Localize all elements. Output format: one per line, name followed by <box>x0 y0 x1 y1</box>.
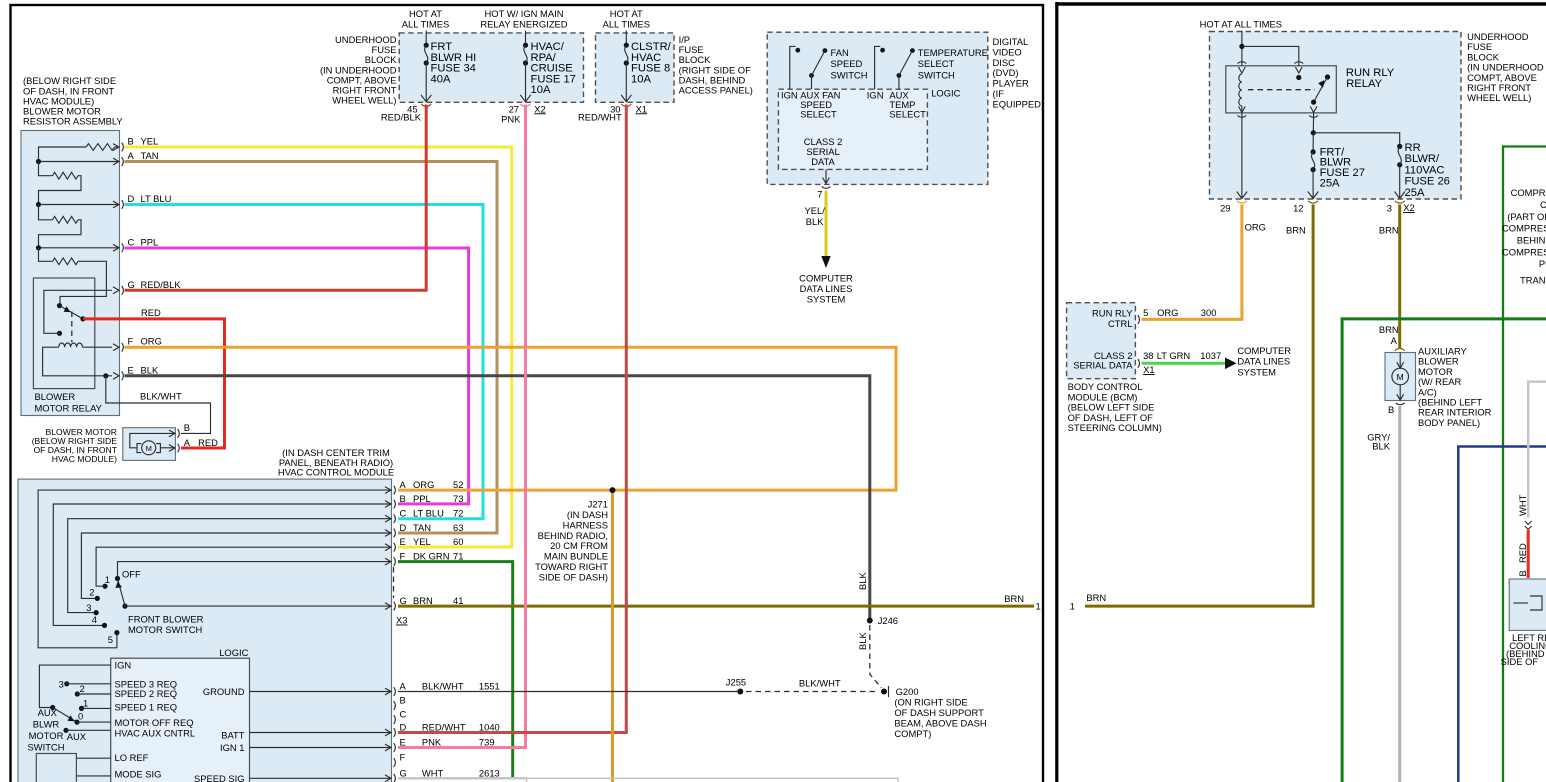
svg-text:A: A <box>128 150 135 161</box>
svg-text:HOT AT: HOT AT <box>610 8 643 19</box>
svg-text:AUX: AUX <box>67 731 87 742</box>
svg-text:A: A <box>400 681 407 692</box>
svg-text:A: A <box>184 437 191 448</box>
svg-text:(IF: (IF <box>993 88 1005 99</box>
svg-text:BATT: BATT <box>221 730 245 741</box>
svg-text:SELECT: SELECT <box>918 58 955 69</box>
svg-text:MOTOR OFF REQ: MOTOR OFF REQ <box>115 717 194 728</box>
svg-text:BLWR: BLWR <box>33 719 60 730</box>
dashed BLK below J246 <box>870 625 882 688</box>
svg-text:BLK: BLK <box>141 364 159 375</box>
svg-text:SWITCH: SWITCH <box>918 69 955 80</box>
underhood fuse block (left panel) <box>399 33 583 102</box>
svg-text:X1: X1 <box>636 103 647 114</box>
svg-text:B: B <box>1517 570 1528 576</box>
svg-text:38: 38 <box>1143 350 1153 361</box>
svg-text:LOGIC: LOGIC <box>931 88 960 99</box>
svg-text:1: 1 <box>83 698 88 709</box>
wire RED (relay to blower motor A) <box>83 319 225 448</box>
svg-text:1: 1 <box>105 574 110 585</box>
svg-text:E: E <box>128 364 134 375</box>
svg-text:G200: G200 <box>896 686 919 697</box>
svg-text:3: 3 <box>59 679 64 690</box>
svg-text:RED/BLK: RED/BLK <box>381 112 422 123</box>
wire LT GRN <box>1142 362 1227 365</box>
front blower motor switch <box>115 576 120 581</box>
relay coil <box>59 343 83 347</box>
svg-text:FRONT BLOWER: FRONT BLOWER <box>128 614 204 625</box>
svg-text:B: B <box>400 493 406 504</box>
svg-text:SPEED: SPEED <box>831 58 863 69</box>
svg-text:ALL TIMES: ALL TIMES <box>603 18 650 29</box>
svg-text:BLWR/: BLWR/ <box>1405 153 1440 165</box>
blower motor relay inner box <box>33 278 94 389</box>
svg-text:110VAC: 110VAC <box>1405 164 1445 176</box>
svg-text:SELECT: SELECT <box>889 109 926 120</box>
fan speed switch <box>790 46 796 89</box>
svg-text:SIDE OF DASH): SIDE OF DASH) <box>539 571 608 582</box>
wire C PPL <box>125 248 469 504</box>
svg-text:BRN: BRN <box>1286 225 1306 236</box>
svg-text:BLK: BLK <box>806 216 824 227</box>
svg-text:BLK: BLK <box>857 632 868 650</box>
svg-text:1037: 1037 <box>1200 350 1221 361</box>
svg-text:2: 2 <box>89 587 94 598</box>
svg-text:M: M <box>146 444 152 453</box>
svg-text:COMPRESSOR: COMPRESSOR <box>1502 246 1546 257</box>
svg-text:SIDE OF: SIDE OF <box>1501 656 1539 667</box>
svg-text:20 CM FROM: 20 CM FROM <box>550 540 608 551</box>
wire B YEL <box>125 147 512 547</box>
svg-text:25A: 25A <box>1320 178 1340 190</box>
module pin connectors + labels (upper group) <box>385 487 391 494</box>
navy box <box>1458 447 1546 782</box>
svg-text:LT BLU: LT BLU <box>141 193 172 204</box>
relay dashed link <box>71 312 73 343</box>
fuse F34 FRT BLWR HI <box>424 43 429 48</box>
fuse 27 <box>1311 149 1316 154</box>
svg-text:PULLEY): PULLEY) <box>1539 258 1546 269</box>
svg-text:IGN: IGN <box>115 660 132 671</box>
relay feeds <box>1241 31 1243 66</box>
svg-text:BODY PANEL): BODY PANEL) <box>1418 417 1480 428</box>
svg-text:TAN: TAN <box>413 522 431 533</box>
svg-text:(PART OF: (PART OF <box>1507 211 1546 222</box>
svg-text:(ON RIGHT SIDE: (ON RIGHT SIDE <box>894 696 967 707</box>
svg-text:FUSE 26: FUSE 26 <box>1405 176 1450 188</box>
svg-text:4: 4 <box>92 614 97 625</box>
svg-text:TOWARD RIGHT: TOWARD RIGHT <box>535 561 608 572</box>
bottom-left small box <box>36 754 76 782</box>
svg-text:5: 5 <box>1143 307 1148 318</box>
svg-text:41: 41 <box>453 595 463 606</box>
svg-text:SWITCH: SWITCH <box>831 69 868 80</box>
svg-text:J246: J246 <box>878 615 898 626</box>
svg-text:LOGIC: LOGIC <box>219 647 248 658</box>
svg-text:B: B <box>128 136 134 147</box>
svg-text:COMPUTER: COMPUTER <box>799 273 853 284</box>
svg-text:ORG: ORG <box>141 336 162 347</box>
blower motor resistor assembly box <box>21 131 120 416</box>
svg-text:BRN: BRN <box>1004 593 1024 604</box>
svg-text:G: G <box>128 279 135 290</box>
splice J255 <box>737 689 743 695</box>
svg-text:LT BLU: LT BLU <box>413 508 444 519</box>
svg-text:SPEED 2 REQ: SPEED 2 REQ <box>115 688 178 699</box>
left rear cooling box <box>1509 579 1546 630</box>
svg-text:BLK/WHT: BLK/WHT <box>799 678 841 689</box>
underhood fuse block (right) <box>1210 32 1462 200</box>
svg-text:PPL: PPL <box>413 493 431 504</box>
svg-text:PLAYER: PLAYER <box>993 78 1030 89</box>
svg-text:739: 739 <box>479 737 495 748</box>
svg-text:SYSTEM: SYSTEM <box>1237 366 1276 377</box>
wire ORG (29 to BCM) <box>1142 205 1242 320</box>
svg-text:COMPT): COMPT) <box>894 728 931 739</box>
svg-text:ACCESS PANEL): ACCESS PANEL) <box>679 85 753 96</box>
svg-text:SELECT: SELECT <box>800 109 837 120</box>
svg-text:J255: J255 <box>726 677 746 688</box>
svg-text:PPL: PPL <box>141 236 159 247</box>
svg-text:71: 71 <box>453 551 463 562</box>
svg-text:ALL TIMES: ALL TIMES <box>402 18 449 29</box>
relay upper contact <box>57 303 62 308</box>
svg-text:DISC: DISC <box>993 57 1016 68</box>
svg-text:X3: X3 <box>396 615 407 626</box>
svg-text:RED/WHT: RED/WHT <box>578 112 622 123</box>
svg-text:B: B <box>400 695 406 706</box>
node: A tap <box>36 159 41 164</box>
svg-text:RED/BLK: RED/BLK <box>141 279 182 290</box>
svg-text:HOT W/ IGN MAIN: HOT W/ IGN MAIN <box>485 8 564 19</box>
wire G RED/BLK (to fuse 34 pin 45) <box>125 105 427 291</box>
fuse F8 CLSTR/HVAC <box>624 43 629 48</box>
svg-text:MOTOR: MOTOR <box>29 730 64 741</box>
svg-text:F: F <box>128 336 134 347</box>
svg-text:2: 2 <box>80 683 85 694</box>
svg-text:0: 0 <box>78 711 83 722</box>
svg-text:RELAY: RELAY <box>1346 78 1382 90</box>
svg-text:STEERING COLUMN): STEERING COLUMN) <box>1068 422 1162 433</box>
svg-text:A: A <box>1391 335 1398 346</box>
resistor box pin connectors <box>113 144 119 151</box>
svg-text:COMPUTER: COMPUTER <box>1237 345 1291 356</box>
svg-text:40A: 40A <box>431 73 451 85</box>
wire A TAN <box>125 162 498 534</box>
relay common + blade <box>60 306 84 319</box>
svg-text:AUX: AUX <box>38 707 58 718</box>
svg-text:C: C <box>400 709 407 720</box>
svg-text:63: 63 <box>453 522 463 533</box>
svg-text:D: D <box>128 193 135 204</box>
svg-text:SERIAL DATA: SERIAL DATA <box>1073 360 1133 371</box>
auxiliary blower motor <box>1395 355 1404 362</box>
svg-text:(DVD): (DVD) <box>993 67 1019 78</box>
svg-text:DK GRN: DK GRN <box>413 551 449 562</box>
relay lower contact + G feed <box>57 331 62 336</box>
node: E junction <box>103 373 108 378</box>
svg-text:1: 1 <box>1036 601 1041 612</box>
svg-text:OF DASH SUPPORT: OF DASH SUPPORT <box>894 707 984 718</box>
svg-text:12: 12 <box>1293 203 1303 214</box>
svg-text:X1: X1 <box>1143 364 1154 375</box>
svg-text:YEL: YEL <box>413 536 431 547</box>
svg-text:ORG: ORG <box>413 479 434 490</box>
aux blower motor switch <box>39 665 110 707</box>
ground G200 <box>881 689 887 695</box>
svg-text:LT GRN: LT GRN <box>1157 350 1191 361</box>
svg-text:VIDEO: VIDEO <box>993 46 1022 57</box>
svg-text:PNK: PNK <box>501 114 521 125</box>
wire A BLK/WHT to J255 <box>398 691 740 693</box>
svg-text:25A: 25A <box>1405 187 1425 199</box>
left panel frame <box>11 5 1044 782</box>
wire RED/WHT from fuse 8 <box>398 105 626 733</box>
svg-text:MOTOR SWITCH: MOTOR SWITCH <box>128 624 202 635</box>
BCM box <box>1067 303 1136 379</box>
svg-text:IGN: IGN <box>867 90 884 101</box>
svg-text:COMPRESSOR,: COMPRESSOR, <box>1502 223 1546 234</box>
fuse block bottom pins <box>1237 192 1247 199</box>
svg-text:ORG: ORG <box>1157 307 1178 318</box>
svg-text:G: G <box>400 595 407 606</box>
DVD player outer box <box>767 32 988 184</box>
svg-text:BLK: BLK <box>857 572 868 590</box>
svg-text:YEL: YEL <box>141 136 159 147</box>
svg-text:RED: RED <box>198 437 218 448</box>
svg-text:29: 29 <box>1220 203 1230 214</box>
wire GRY/BLK <box>1398 406 1401 782</box>
svg-text:BEHIND: BEHIND <box>1517 235 1546 246</box>
right panel frame <box>1055 2 1058 782</box>
node: C tap <box>36 245 41 250</box>
svg-text:D: D <box>400 522 407 533</box>
wire BRN (12 to left exit) <box>1085 205 1313 607</box>
resistor serpentine chain <box>115 146 120 148</box>
wire E BLK <box>125 376 870 618</box>
svg-text:J271: J271 <box>588 499 608 510</box>
svg-text:RED/WHT: RED/WHT <box>422 722 466 733</box>
wire ORG J271 branch down <box>611 490 614 782</box>
svg-text:SWITCH: SWITCH <box>28 742 65 753</box>
wire G BRN <box>398 605 1034 608</box>
dashed connector continuation F..G <box>393 567 395 598</box>
svg-text:52: 52 <box>453 479 463 490</box>
svg-text:RUN RLY: RUN RLY <box>1092 308 1133 319</box>
svg-text:E: E <box>400 737 406 748</box>
dashed BLK/WHT to G200 <box>746 691 878 693</box>
svg-text:BRN: BRN <box>1086 592 1106 603</box>
svg-text:X2: X2 <box>1403 202 1414 213</box>
wire D LT BLU <box>125 205 484 519</box>
svg-text:BEHIND RADIO,: BEHIND RADIO, <box>538 530 608 541</box>
svg-text:HVAC CONTROL MODULE: HVAC CONTROL MODULE <box>278 467 394 478</box>
svg-text:3: 3 <box>86 602 91 613</box>
svg-text:WHEEL WELL): WHEEL WELL) <box>332 95 396 106</box>
blower motor box <box>123 428 176 461</box>
svg-text:B: B <box>1388 404 1394 415</box>
svg-text:DIGITAL: DIGITAL <box>993 36 1029 47</box>
I/P fuse block <box>596 33 675 102</box>
wire BRN (3 to aux motor) <box>1398 205 1401 350</box>
svg-text:MAIN BUNDLE: MAIN BUNDLE <box>544 551 608 562</box>
run rly relay box <box>1226 66 1337 113</box>
svg-text:WHT: WHT <box>422 767 444 778</box>
DVD pin 7 <box>825 169 827 183</box>
module internal wires to front blower switch <box>38 490 391 648</box>
svg-text:BLK/WHT: BLK/WHT <box>140 391 182 402</box>
svg-text:RED: RED <box>1517 543 1528 563</box>
svg-text:HOT AT: HOT AT <box>409 8 442 19</box>
svg-text:RR: RR <box>1405 142 1421 154</box>
splice J271 <box>610 487 616 493</box>
svg-text:1: 1 <box>1070 601 1075 612</box>
DVD logic inner box <box>778 89 927 169</box>
svg-text:C: C <box>128 236 135 247</box>
svg-text:GROUND: GROUND <box>203 686 245 697</box>
svg-text:A: A <box>400 479 407 490</box>
svg-text:73: 73 <box>453 493 463 504</box>
svg-text:1551: 1551 <box>479 681 500 692</box>
WHT / RED drop at right <box>1528 382 1546 518</box>
svg-text:DATA LINES: DATA LINES <box>1237 356 1290 367</box>
relay coil (vertical) <box>1239 74 1242 106</box>
wire G WHT + gray box bottom <box>398 777 527 780</box>
svg-text:ORG: ORG <box>1245 222 1266 233</box>
svg-text:X2: X2 <box>534 103 545 114</box>
module pin connectors (lower group) <box>385 688 391 695</box>
node: D tap <box>36 202 41 207</box>
svg-text:B: B <box>184 422 190 433</box>
svg-text:DATA LINES: DATA LINES <box>800 283 853 294</box>
svg-text:SYSTEM: SYSTEM <box>807 293 846 304</box>
wire PNK from fuse 17 <box>398 105 526 748</box>
svg-text:(IN DASH: (IN DASH <box>567 509 608 520</box>
svg-text:M: M <box>1397 372 1404 382</box>
svg-text:RED: RED <box>141 307 161 318</box>
svg-text:RELAY ENERGIZED: RELAY ENERGIZED <box>480 18 567 29</box>
relay outputs <box>1239 106 1246 112</box>
relay switch <box>1325 74 1330 79</box>
svg-text:HVAC AUX CNTRL: HVAC AUX CNTRL <box>115 728 196 739</box>
svg-text:10A: 10A <box>531 84 551 96</box>
svg-text:SPEED 1 REQ: SPEED 1 REQ <box>115 702 178 713</box>
wire YEL/BLK <box>825 191 828 258</box>
svg-text:CLUTCH: CLUTCH <box>1540 199 1546 210</box>
wire F DK GRN <box>398 562 513 778</box>
svg-text:BLK: BLK <box>1372 441 1390 452</box>
svg-text:F: F <box>400 551 406 562</box>
splice J246 <box>867 618 873 624</box>
fuse 26 <box>1397 144 1402 149</box>
svg-text:10A: 10A <box>631 73 651 85</box>
svg-text:2613: 2613 <box>479 767 500 778</box>
svg-text:BRN: BRN <box>413 595 433 606</box>
svg-text:BEAM, ABOVE DASH: BEAM, ABOVE DASH <box>894 717 986 728</box>
svg-text:SPEED SIG: SPEED SIG <box>194 773 245 782</box>
svg-text:60: 60 <box>453 536 463 547</box>
svg-text:BRN: BRN <box>1379 225 1399 236</box>
svg-text:WHEEL WELL): WHEEL WELL) <box>1467 92 1531 103</box>
svg-text:BLOWER: BLOWER <box>35 391 76 402</box>
svg-text:300: 300 <box>1201 307 1217 318</box>
svg-text:BRN: BRN <box>1379 324 1399 335</box>
LOGIC box output wires <box>250 691 392 693</box>
svg-text:G: G <box>400 767 407 778</box>
svg-text:1040: 1040 <box>479 722 500 733</box>
svg-text:YEL/: YEL/ <box>805 205 826 216</box>
svg-text:MOTOR RELAY: MOTOR RELAY <box>35 402 103 413</box>
svg-text:COMPRESSOR: COMPRESSOR <box>1511 187 1546 198</box>
svg-text:TEMPERATURE: TEMPERATURE <box>918 47 988 58</box>
svg-text:IGN 1: IGN 1 <box>220 742 245 753</box>
svg-text:LO REF: LO REF <box>115 752 149 763</box>
svg-text:HARNESS: HARNESS <box>563 519 608 530</box>
svg-text:5: 5 <box>108 634 113 645</box>
svg-text:F: F <box>400 752 406 763</box>
fuse F17 HVAC/RPA/CRUISE <box>523 43 528 48</box>
svg-text:CTRL: CTRL <box>1108 318 1132 329</box>
svg-text:72: 72 <box>453 508 463 519</box>
svg-text:DATA: DATA <box>811 156 835 167</box>
wire GRN from compressor <box>1342 319 1546 782</box>
svg-text:C: C <box>400 508 407 519</box>
svg-text:BLK/WHT: BLK/WHT <box>422 681 464 692</box>
wire F ORG loop to module A <box>125 347 897 490</box>
svg-text:OFF: OFF <box>122 569 141 580</box>
svg-text:TRANS: TRANS <box>1520 275 1546 286</box>
svg-text:HVAC MODULE): HVAC MODULE) <box>52 454 117 464</box>
blower motor symbol <box>142 441 156 455</box>
temperature select switch <box>875 46 881 89</box>
svg-text:TAN: TAN <box>141 150 159 161</box>
svg-text:3: 3 <box>1387 203 1392 214</box>
svg-text:MODE SIG: MODE SIG <box>115 769 162 780</box>
compressor box (green) <box>1503 147 1546 782</box>
svg-text:HOT AT ALL TIMES: HOT AT ALL TIMES <box>1200 19 1282 30</box>
svg-text:IGN: IGN <box>781 90 798 101</box>
svg-text:WHT: WHT <box>1517 494 1528 516</box>
svg-text:D: D <box>400 722 407 733</box>
HVAC control module box <box>18 479 392 782</box>
svg-text:RESISTOR ASSEMBLY: RESISTOR ASSEMBLY <box>23 115 123 126</box>
svg-text:E: E <box>400 536 406 547</box>
svg-text:EQUIPPED): EQUIPPED) <box>993 98 1045 109</box>
svg-text:7: 7 <box>817 189 822 200</box>
wire BLK/WHT relay to motor B (thin) <box>106 376 211 434</box>
svg-text:FAN: FAN <box>831 47 849 58</box>
svg-text:PNK: PNK <box>422 737 442 748</box>
